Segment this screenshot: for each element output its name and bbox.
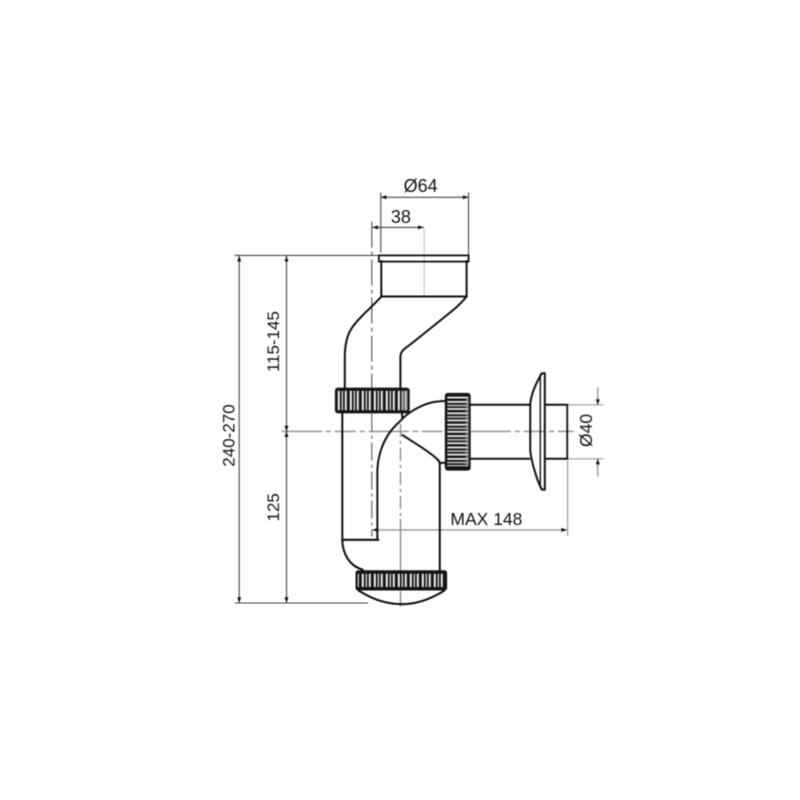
svg-text:240-270: 240-270 (220, 404, 239, 466)
svg-text:MAX 148: MAX 148 (450, 509, 522, 529)
svg-text:Ø64: Ø64 (404, 176, 438, 196)
svg-text:125: 125 (264, 493, 283, 521)
svg-text:115-145: 115-145 (264, 311, 283, 372)
svg-text:38: 38 (391, 207, 411, 227)
svg-text:Ø40: Ø40 (576, 414, 596, 447)
